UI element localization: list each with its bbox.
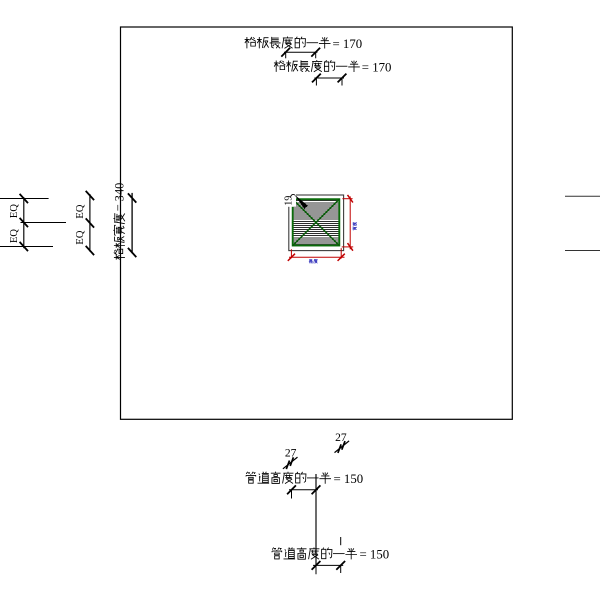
dimension 格板寬度=340 label (rotated) bbox=[112, 183, 126, 260]
27 marker left bbox=[283, 457, 298, 469]
27 marker right bbox=[335, 441, 350, 453]
left reference line bottom bbox=[0, 246, 53, 248]
red dimension right blue label bbox=[353, 222, 357, 230]
keynote halo bbox=[283, 193, 296, 207]
EQ dimension B line bbox=[86, 191, 94, 255]
red dimension bottom witness right bbox=[340, 248, 342, 258]
keynote leader arc bbox=[291, 194, 296, 197]
svg-text:27: 27 bbox=[335, 432, 347, 444]
red dimension right witness bottom bbox=[342, 246, 354, 248]
svg-text:= 150: = 150 bbox=[334, 472, 364, 486]
svg-text:= 170: = 170 bbox=[362, 60, 392, 74]
red dimension bottom line bbox=[289, 256, 345, 258]
grille outer gray square bbox=[289, 195, 344, 251]
dimension 管道高度的一半=150 (first) label bbox=[246, 472, 331, 484]
dimension 格板長度的一半=170 (second) label bbox=[274, 60, 360, 72]
dimension line second 170 bbox=[312, 74, 346, 86]
dimension 格板寬度=340 line bbox=[128, 193, 136, 257]
svg-text:27: 27 bbox=[285, 447, 297, 459]
svg-text:EQ: EQ bbox=[75, 230, 86, 244]
svg-text:EQ: EQ bbox=[75, 204, 86, 218]
dimension line second 150 bbox=[312, 561, 346, 574]
grille louver slats bbox=[293, 201, 339, 244]
left reference line top bbox=[0, 198, 49, 200]
witness stub above second label bbox=[340, 537, 342, 545]
right reference line top bbox=[565, 195, 600, 197]
dimension 格板長度的一半=170 (first) label bbox=[245, 37, 331, 49]
svg-text:EQ: EQ bbox=[9, 229, 20, 243]
EQ dimension A line bbox=[20, 194, 28, 251]
dimension line first 170 bbox=[281, 48, 320, 59]
right reference line bottom bbox=[565, 250, 600, 252]
red dimension right witness top bbox=[342, 195, 354, 251]
dimension 管道高度的一半=150 (second) label bbox=[272, 547, 357, 559]
svg-text:19: 19 bbox=[284, 196, 295, 206]
red dimension right line bbox=[349, 196, 351, 249]
big square outline bbox=[121, 27, 513, 419]
red dimension bottom witness left bbox=[288, 248, 345, 261]
left reference line middle bbox=[21, 222, 67, 224]
svg-text:= 340: = 340 bbox=[112, 183, 126, 211]
grille green diagonal X bbox=[293, 199, 340, 245]
svg-text:= 150: = 150 bbox=[360, 548, 390, 562]
grille green frame bbox=[293, 199, 340, 245]
red dimension bottom blue label bbox=[309, 259, 318, 263]
keynote arrow bbox=[294, 195, 308, 209]
svg-text:= 170: = 170 bbox=[333, 37, 363, 51]
svg-text:EQ: EQ bbox=[9, 204, 20, 218]
center witness line (long vertical) bbox=[315, 474, 317, 565]
dimension line first 150 bbox=[287, 485, 320, 498]
